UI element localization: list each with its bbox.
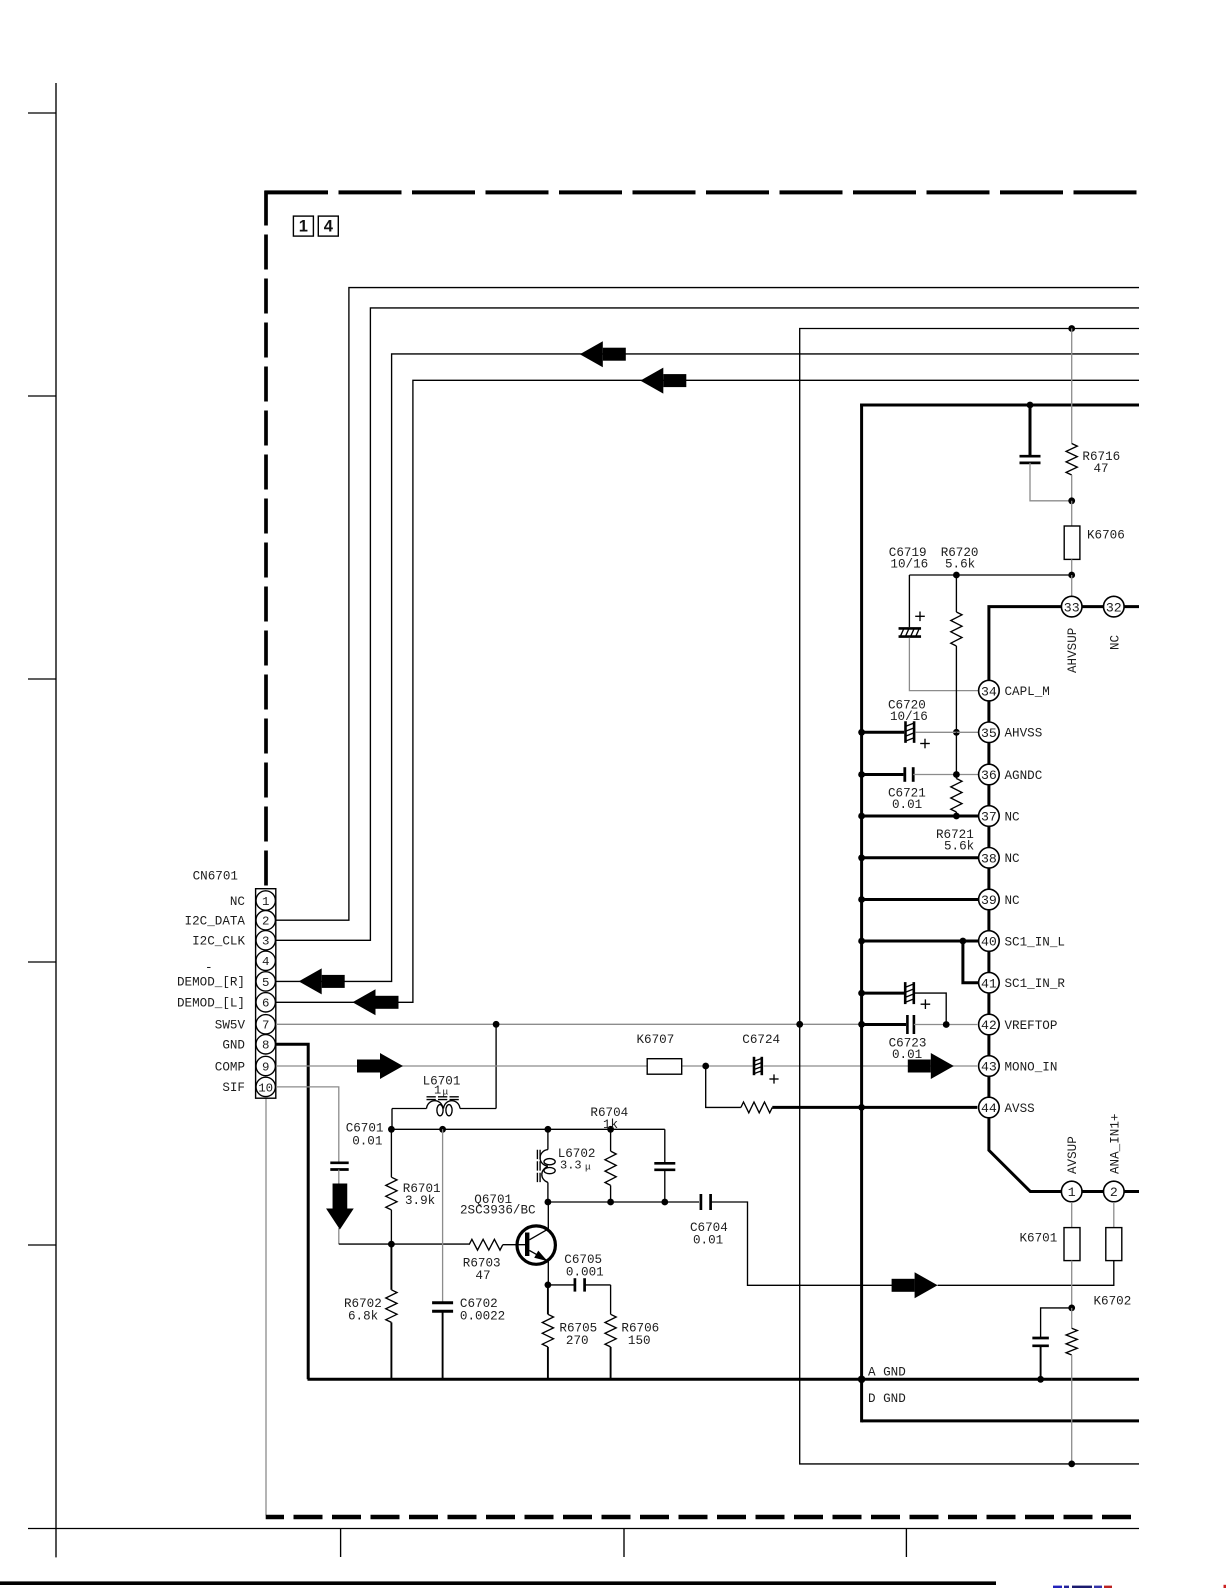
wire pin39 row [862, 898, 979, 901]
svg-text:43: 43 [981, 1060, 997, 1075]
capacitor C6724 (electrolytic) [742, 1033, 780, 1084]
connector CN6701 pin 7 SW5V [215, 1015, 276, 1034]
junction filter cap at A GND [1037, 1376, 1044, 1383]
signal arrow on DEMOD_[L] top wire [640, 368, 686, 394]
wire DEMOD_[L] (pin6 to top edge) [276, 380, 1139, 1002]
svg-text:42: 42 [981, 1018, 997, 1033]
svg-text:AHVSUP: AHVSUP [1066, 628, 1080, 673]
svg-text:SW5V: SW5V [215, 1019, 246, 1033]
IC ground bus top edge [860, 404, 1139, 407]
svg-text:5.6k: 5.6k [945, 558, 975, 572]
svg-text:5.6k: 5.6k [944, 840, 974, 854]
signal arrow on DEMOD_[L] at connector [353, 989, 399, 1015]
IC pin 1 AVSUP [1061, 1136, 1082, 1202]
wire I2C_DATA (pin2 to top edge) [276, 288, 1139, 921]
wire below K6701 [1071, 1261, 1073, 1308]
svg-text:NC: NC [1108, 634, 1122, 650]
capacitor C6719 10/16 (electrolytic) [889, 546, 979, 691]
svg-text:2: 2 [262, 915, 269, 929]
IC pin row top (pins 33,32) [989, 607, 1139, 1192]
svg-text:9: 9 [262, 1060, 269, 1074]
svg-text:μ: μ [443, 1087, 449, 1098]
connector CN6701 pin 10 SIF [222, 1077, 275, 1096]
jumper K6701 [1020, 1202, 1081, 1261]
signal arrow to ANA_IN1+ [892, 1272, 938, 1298]
svg-text:1: 1 [1068, 1185, 1076, 1200]
capacitor C6701 [330, 1122, 383, 1170]
IC pin 34 CAPL_M [979, 680, 1050, 701]
dashed page boundary (sheet 1-4 region) [265, 191, 1140, 1518]
capacitor C6702 0.0022 [432, 1129, 505, 1379]
wire COMP (pin9 to MONO_IN pin43) [276, 1065, 977, 1067]
svg-text:36: 36 [981, 768, 997, 783]
resistor (unlabeled) in AVSS line [741, 1102, 772, 1113]
junction SW5V / L6701 branch [493, 1021, 500, 1028]
resistor R6721 5.6k [936, 775, 974, 854]
svg-text:3.3: 3.3 [560, 1159, 582, 1173]
junction pin40 row at bus [858, 938, 865, 945]
wire I2C_CLK (pin3 to top edge) [276, 308, 1139, 940]
svg-text:150: 150 [628, 1334, 651, 1348]
wire SIF (pin10 down) [276, 1087, 339, 1162]
svg-text:A GND: A GND [868, 1366, 906, 1380]
junction R6721 / pin37 row [953, 813, 960, 820]
svg-text:AVSS: AVSS [1005, 1102, 1035, 1116]
svg-text:DEMOD_[L]: DEMOD_[L] [177, 997, 245, 1011]
capacitor C6723 0.01 [862, 1015, 978, 1062]
svg-text:I2C_CLK: I2C_CLK [192, 935, 245, 949]
connector CN6701 pin 4 [256, 951, 275, 970]
A GND bus line [308, 1366, 1140, 1380]
jumper K6707 [637, 1033, 682, 1074]
signal arrow on DEMOD_[R] top wire [580, 341, 626, 367]
IC pin 33 [1061, 596, 1082, 673]
svg-text:DEMOD_[R]: DEMOD_[R] [177, 976, 245, 990]
wire L6701 left leg to rail [391, 1109, 393, 1130]
IC pin 42 VREFTOP [979, 1014, 1058, 1035]
sheet reference box 1 [293, 216, 313, 236]
inductor L6702 3.3u [537, 1129, 595, 1202]
svg-text:10: 10 [258, 1081, 273, 1095]
junction SW5V / riser [796, 1021, 803, 1028]
svg-text:0.01: 0.01 [892, 798, 922, 812]
resistor R6706 150 [605, 1285, 659, 1379]
connector CN6701 pin 2 I2C_DATA [185, 911, 276, 930]
svg-text:AGNDC: AGNDC [1005, 769, 1043, 783]
sheet reference box 4 [318, 216, 338, 236]
svg-text:3.9k: 3.9k [405, 1194, 435, 1208]
junction on top rail [545, 1126, 552, 1133]
junction COMP / AVSS branch [702, 1063, 709, 1070]
IC pin 2 ANA_IN1+ [1104, 1114, 1125, 1202]
junction AVSS at bus [858, 1104, 865, 1111]
svg-text:270: 270 [566, 1334, 589, 1348]
svg-text:SIF: SIF [222, 1081, 245, 1095]
svg-text:K6707: K6707 [637, 1033, 675, 1047]
capacitor (unlabeled, top bus decoupling) [1020, 405, 1072, 501]
svg-text:39: 39 [981, 893, 997, 908]
signal arrow on COMP wire [357, 1053, 403, 1079]
wire SW5V (pin7 to VREFTOP row) [276, 1023, 862, 1025]
capacitor C6722 (electrolytic, unlabeled) [862, 982, 947, 1024]
svg-text:2: 2 [1110, 1185, 1118, 1200]
svg-text:SC1_IN_R: SC1_IN_R [1005, 977, 1066, 991]
junction on mid rail [607, 1199, 614, 1206]
junction on mid rail [661, 1199, 668, 1206]
svg-text:0.01: 0.01 [352, 1135, 382, 1149]
connector CN6701 pin 5 DEMOD_[R] [177, 972, 275, 991]
wire Q6701 emitter [547, 1261, 549, 1285]
capacitor C6720 10/16 (electrolytic) [862, 699, 979, 749]
jumper K6706 [1064, 501, 1125, 575]
svg-text:1: 1 [262, 895, 269, 909]
svg-text:1: 1 [299, 218, 308, 236]
svg-text:0.001: 0.001 [566, 1266, 604, 1280]
resistor R6701 3.9k [386, 1129, 441, 1244]
svg-text:8: 8 [262, 1039, 269, 1053]
junction base row / R6701-R6702 [388, 1241, 395, 1248]
junction AHVSUP row / R6720 [953, 572, 960, 579]
junction emitter node [545, 1282, 552, 1289]
wire AVSS row (to pin 44) [772, 1106, 977, 1109]
wire below C6701 with arrow [338, 1170, 340, 1245]
wire pin38 row [862, 856, 979, 859]
svg-text:L6701: L6701 [423, 1075, 461, 1089]
svg-text:6.8k: 6.8k [348, 1310, 378, 1324]
svg-text:K6701: K6701 [1020, 1232, 1058, 1246]
junction on SW5V riser wire [1068, 325, 1075, 332]
svg-text:μ: μ [585, 1162, 591, 1173]
wire GND (pin8 down to A GND bus) [276, 1044, 308, 1379]
wire branch COMP junction down to AVSS resistor [706, 1066, 741, 1107]
junction on top rail [439, 1126, 446, 1133]
IC pin 39 NC [979, 889, 1020, 910]
IC pin 32 [1104, 596, 1125, 650]
junction lower return [1068, 1461, 1075, 1468]
junction on IC bus top edge [1027, 402, 1034, 409]
svg-text:CN6701: CN6701 [193, 870, 238, 884]
connector CN6701 pin 1 NC [230, 891, 276, 910]
junction SW5V at bus [858, 1021, 865, 1028]
wire pin41 jog [963, 941, 979, 983]
junction pin39 row at bus [858, 896, 865, 903]
capacitor (unlabeled, AVSUP filter) [1032, 1308, 1071, 1379]
junction R6721 top [953, 771, 960, 778]
svg-text:1: 1 [434, 1084, 441, 1098]
wire R6720-R6721 link [955, 732, 957, 774]
svg-text:AHVSS: AHVSS [1005, 727, 1043, 741]
svg-text:MONO_IN: MONO_IN [1005, 1060, 1058, 1074]
svg-text:SC1_IN_L: SC1_IN_L [1005, 935, 1065, 949]
junction on top rail [607, 1126, 614, 1133]
junction A GND / bus left edge [858, 1376, 866, 1384]
svg-text:C6724: C6724 [742, 1033, 780, 1047]
junction AHVSS at bus [858, 729, 865, 736]
svg-text:47: 47 [475, 1269, 490, 1283]
svg-text:5: 5 [262, 976, 269, 990]
svg-text:35: 35 [981, 726, 997, 741]
D GND bus line [862, 1392, 1139, 1421]
connector CN6701 body [193, 870, 276, 1099]
wire Q6701 base row [339, 1243, 469, 1245]
capacitor (unlabeled, parallel R6704) [654, 1129, 675, 1202]
wire to K6702 [938, 1261, 1114, 1285]
IC pin 35 AHVSS [979, 722, 1043, 743]
capacitor C6721 0.01 [862, 767, 979, 812]
junction C6722 row at bus [858, 990, 865, 997]
inductor L6701 1u [392, 1075, 496, 1116]
svg-text:NC: NC [1005, 894, 1021, 908]
svg-text:2SC3936/BC: 2SC3936/BC [460, 1204, 536, 1218]
IC pin 40 SC1_IN_L [979, 931, 1065, 952]
svg-text:33: 33 [1064, 600, 1080, 615]
IC pin 41 SC1_IN_R [979, 972, 1066, 993]
svg-text:40: 40 [981, 935, 997, 950]
junction on top rail [388, 1126, 395, 1133]
svg-text:3: 3 [262, 935, 269, 949]
connector CN6701 pin 8 GND [222, 1035, 275, 1054]
wire oscillator top rail [391, 1128, 664, 1130]
svg-text:4: 4 [324, 218, 334, 236]
svg-text:10/16: 10/16 [890, 558, 928, 572]
junction R6716 / decoupling cap [1068, 497, 1075, 504]
junction C6722 jog / VREFTOP row [943, 1021, 950, 1028]
svg-text:COMP: COMP [215, 1060, 245, 1074]
svg-text:32: 32 [1106, 600, 1122, 615]
svg-text:44: 44 [981, 1101, 997, 1116]
junction AGNDC at bus [858, 771, 865, 778]
resistor R6720 5.6k [941, 546, 979, 732]
svg-text:4: 4 [262, 955, 269, 969]
signal arrow MONO_IN [908, 1053, 954, 1079]
junction R6720 / AHVSS row [953, 729, 960, 736]
IC ground bus left edge [860, 404, 863, 1423]
wire pin37 row [862, 815, 979, 818]
jumper K6702 [1094, 1202, 1132, 1309]
resistor R6704 1k [590, 1106, 628, 1202]
resistor (unlabeled, below K6701) [1066, 1308, 1077, 1464]
svg-text:D GND: D GND [868, 1392, 906, 1406]
svg-text:I2C_DATA: I2C_DATA [185, 915, 246, 929]
junction pin40/pin41 branch [960, 938, 967, 945]
junction pin37 row at bus [858, 813, 865, 820]
svg-text:34: 34 [981, 684, 997, 699]
capacitor C6704 0.01 [690, 1194, 894, 1285]
svg-text:47: 47 [1094, 462, 1109, 476]
label '-' above DEMOD_[R] [205, 961, 213, 975]
signal arrow down (SIF path) [326, 1184, 354, 1230]
svg-text:C6701: C6701 [346, 1122, 384, 1136]
svg-text:-: - [205, 961, 213, 975]
connector CN6701 pin 9 COMP [215, 1056, 276, 1075]
wire pin40 row [862, 940, 979, 943]
svg-text:NC: NC [230, 895, 246, 909]
resistor R6702 6.8k [344, 1244, 397, 1379]
resistor R6705 270 [542, 1285, 597, 1379]
svg-text:0.0022: 0.0022 [460, 1310, 505, 1324]
svg-text:37: 37 [981, 810, 997, 825]
svg-text:CAPL_M: CAPL_M [1005, 685, 1050, 699]
svg-text:0.01: 0.01 [892, 1048, 922, 1062]
svg-text:AVSUP: AVSUP [1066, 1136, 1080, 1174]
svg-text:7: 7 [262, 1019, 269, 1033]
svg-text:0.01: 0.01 [693, 1234, 723, 1248]
wire AHVSUP row [909, 575, 1071, 596]
wire DEMOD_[R] (pin5 to top edge) [276, 354, 1139, 982]
svg-text:41: 41 [981, 976, 997, 991]
IC pin 43 MONO_IN [979, 1056, 1058, 1077]
resistor R6716 47 [1066, 329, 1120, 501]
svg-text:NC: NC [1005, 852, 1021, 866]
svg-text:6: 6 [262, 997, 269, 1011]
transistor Q6701 2SC3936/BC [460, 1193, 555, 1265]
wire lower return (riser to bottom row) [800, 1024, 1139, 1464]
signal arrow on DEMOD_[R] at connector [299, 968, 345, 994]
capacitor C6705 0.001 [548, 1253, 611, 1292]
wire SW5V riser to top edge [800, 329, 1139, 1025]
svg-text:38: 38 [981, 852, 997, 867]
junction K6706 / AHVSUP row [1068, 572, 1075, 579]
svg-text:K6706: K6706 [1087, 529, 1125, 543]
junction below K6701 [1068, 1305, 1075, 1312]
connector CN6701 pin 6 DEMOD_[L] [177, 993, 275, 1012]
page stamp remnants (bottom edge) [1053, 1585, 1226, 1588]
svg-text:VREFTOP: VREFTOP [1005, 1019, 1058, 1033]
svg-text:K6702: K6702 [1094, 1295, 1132, 1309]
IC pin 38 NC [979, 848, 1020, 869]
IC pin 36 AGNDC [979, 764, 1043, 785]
wire oscillator mid rail [548, 1201, 699, 1203]
IC pin 37 NC [979, 806, 1020, 827]
wire Q6701 collector [547, 1202, 549, 1230]
junction on mid rail [545, 1199, 552, 1206]
svg-text:GND: GND [222, 1039, 245, 1053]
junction pin38 row at bus [858, 854, 865, 861]
IC pin 44 AVSS [979, 1097, 1035, 1118]
svg-text:10/16: 10/16 [890, 710, 928, 724]
wire SW5V branch down to L6701 [495, 1024, 497, 1108]
svg-text:NC: NC [1005, 810, 1021, 824]
connector CN6701 pin 3 I2C_CLK [192, 931, 275, 950]
resistor R6703 47 (base) [463, 1239, 503, 1283]
svg-text:ANA_IN1+: ANA_IN1+ [1108, 1114, 1122, 1174]
